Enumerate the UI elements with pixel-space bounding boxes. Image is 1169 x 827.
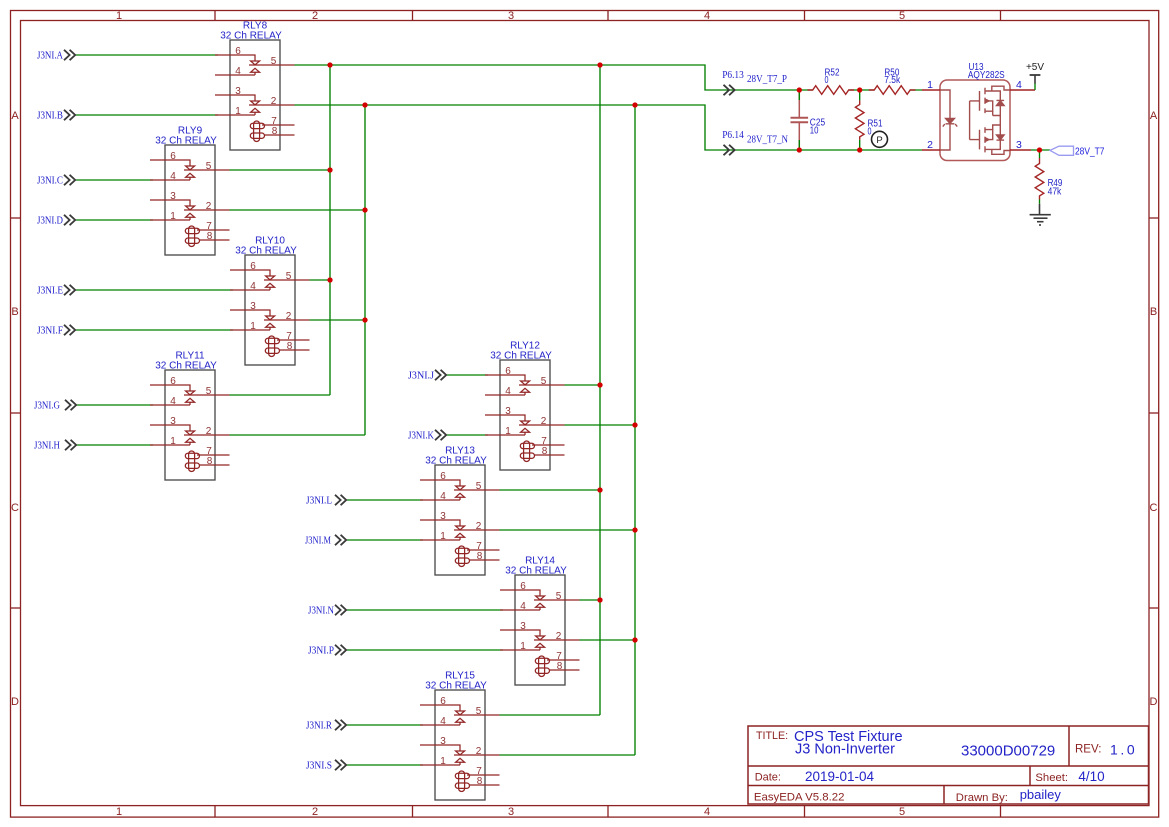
junction C25 bottom bbox=[797, 147, 802, 152]
svg-text:J3NI.K: J3NI.K bbox=[408, 430, 434, 441]
svg-text:J3NI.F: J3NI.F bbox=[37, 325, 63, 336]
svg-text:2: 2 bbox=[312, 10, 318, 22]
junction RLY8.2 bus D bbox=[632, 102, 637, 107]
svg-text:10: 10 bbox=[810, 125, 819, 136]
svg-text:3: 3 bbox=[508, 10, 514, 22]
port J3NI.S bbox=[306, 760, 346, 772]
svg-text:3: 3 bbox=[1016, 139, 1022, 151]
junction RLY10.5 bus A bbox=[327, 277, 332, 282]
svg-text:P: P bbox=[876, 135, 882, 146]
wire J3NI.F to RLY10 pin1 bbox=[76, 329, 233, 331]
svg-text:32 Ch RELAY: 32 Ch RELAY bbox=[220, 31, 282, 42]
svg-text:B: B bbox=[11, 306, 18, 318]
port P6.13 bbox=[722, 70, 744, 95]
title block bbox=[748, 726, 1149, 804]
svg-text:P6.14: P6.14 bbox=[722, 130, 744, 141]
wire RLY14 pin2 to bus bbox=[580, 639, 636, 641]
junction RLY13.2 bus D bbox=[632, 527, 637, 532]
svg-text:J3NI.M: J3NI.M bbox=[305, 535, 332, 546]
svg-text:32 Ch RELAY: 32 Ch RELAY bbox=[425, 681, 487, 692]
wire RLY15 pin5 to bus bbox=[500, 714, 601, 716]
+5V power symbol bbox=[1026, 62, 1044, 90]
svg-text:32 Ch RELAY: 32 Ch RELAY bbox=[235, 246, 297, 257]
U13 pin numbers bbox=[927, 79, 1022, 151]
junction RLY12.2 bus D bbox=[632, 422, 637, 427]
relay RLY10 bbox=[230, 236, 310, 365]
U13 pin 3 stub bbox=[1010, 149, 1031, 151]
svg-text:+5V: +5V bbox=[1026, 62, 1044, 73]
svg-text:32 Ch RELAY: 32 Ch RELAY bbox=[155, 361, 217, 372]
svg-text:J3NI.L: J3NI.L bbox=[306, 495, 332, 506]
wire J3NI.G to RLY11 pin4 bbox=[76, 404, 153, 406]
svg-text:2: 2 bbox=[927, 139, 933, 151]
port J3NI.M bbox=[305, 535, 346, 547]
svg-text:3: 3 bbox=[508, 806, 514, 818]
junction RLY13.5 bus C bbox=[597, 487, 602, 492]
svg-text:J3NI.A: J3NI.A bbox=[37, 50, 63, 61]
port J3NI.D bbox=[37, 215, 75, 227]
svg-text:1.0: 1.0 bbox=[1110, 742, 1137, 758]
svg-text:5: 5 bbox=[899, 806, 905, 818]
svg-text:AQY282S: AQY282S bbox=[968, 70, 1005, 81]
svg-text:J3NI.R: J3NI.R bbox=[306, 720, 332, 731]
junction RLY8.5 bus C bbox=[597, 62, 602, 67]
svg-text:J3NI.J: J3NI.J bbox=[408, 370, 434, 381]
wire U13 pin3 to net flag bbox=[1031, 149, 1050, 151]
svg-text:4: 4 bbox=[704, 806, 710, 818]
svg-text:28V_T7_P: 28V_T7_P bbox=[747, 74, 787, 85]
wire RLY11 pin5 to bus bbox=[230, 394, 331, 396]
port J3NI.R bbox=[306, 720, 346, 732]
wire RLY8 pin2 to port P6.14 rail bbox=[295, 105, 923, 150]
svg-text:J3NI.H: J3NI.H bbox=[34, 440, 60, 451]
svg-text:J3NI.D: J3NI.D bbox=[37, 215, 63, 226]
port J3NI.E bbox=[37, 285, 75, 297]
port J3NI.A bbox=[37, 50, 75, 62]
svg-text:J3NI.G: J3NI.G bbox=[34, 400, 60, 411]
svg-text:C: C bbox=[11, 502, 19, 514]
svg-text:Date:: Date: bbox=[755, 772, 781, 784]
port J3NI.F bbox=[37, 325, 75, 337]
wire J3NI.S to RLY15 pin1 bbox=[347, 764, 423, 766]
svg-text:0: 0 bbox=[868, 126, 872, 137]
svg-text:P6.13: P6.13 bbox=[722, 70, 744, 81]
svg-text:C: C bbox=[1150, 502, 1158, 514]
svg-text:32 Ch RELAY: 32 Ch RELAY bbox=[155, 136, 217, 147]
svg-text:47k: 47k bbox=[1048, 187, 1063, 198]
svg-text:Drawn By:: Drawn By: bbox=[956, 792, 1008, 804]
svg-text:7.5k: 7.5k bbox=[884, 75, 901, 86]
wire RLY9 pin5 to bus bbox=[230, 169, 331, 171]
svg-text:D: D bbox=[11, 696, 19, 708]
svg-text:28V_T7: 28V_T7 bbox=[1075, 146, 1105, 157]
port J3NI.G bbox=[34, 400, 76, 412]
svg-text:J3 Non-Inverter: J3 Non-Inverter bbox=[795, 742, 895, 758]
port J3NI.L bbox=[306, 495, 346, 507]
svg-text:4: 4 bbox=[1016, 79, 1022, 91]
wire J3NI.L to RLY13 pin4 bbox=[347, 499, 423, 501]
svg-text:1: 1 bbox=[116, 10, 122, 22]
svg-text:4: 4 bbox=[704, 10, 710, 22]
svg-text:J3NI.C: J3NI.C bbox=[37, 175, 63, 186]
svg-text:B: B bbox=[1150, 306, 1157, 318]
junction RLY12.5 bus C bbox=[597, 382, 602, 387]
port J3NI.J bbox=[408, 370, 446, 382]
junction RLY9.2 bus B bbox=[362, 207, 367, 212]
svg-text:33000D00729: 33000D00729 bbox=[961, 743, 1055, 760]
svg-text:TITLE:: TITLE: bbox=[756, 730, 788, 742]
svg-text:32 Ch RELAY: 32 Ch RELAY bbox=[505, 566, 567, 577]
port P6.14 bbox=[722, 130, 744, 155]
svg-text:J3NI.E: J3NI.E bbox=[37, 285, 63, 296]
wire RLY10 pin2 to bus bbox=[310, 319, 366, 321]
svg-text:J3NI.P: J3NI.P bbox=[308, 645, 334, 656]
ground symbol bbox=[1030, 204, 1051, 225]
wire RLY13 pin5 to bus bbox=[500, 489, 601, 491]
U13 internal MOSFET pair bbox=[970, 86, 1010, 154]
svg-text:32 Ch RELAY: 32 Ch RELAY bbox=[425, 456, 487, 467]
resistor R50 bbox=[869, 68, 916, 95]
wire J3NI.R to RLY15 pin4 bbox=[347, 724, 423, 726]
resistor R51 bbox=[855, 90, 882, 150]
svg-text:pbailey: pbailey bbox=[1020, 787, 1062, 802]
vertical bus x365 bbox=[364, 105, 366, 435]
svg-text:4/10: 4/10 bbox=[1078, 769, 1104, 784]
wire RLY9 pin2 to bus bbox=[230, 209, 366, 211]
wire RLY10 pin5 to bus bbox=[310, 279, 331, 281]
svg-text:D: D bbox=[1150, 696, 1158, 708]
relay RLY15 bbox=[420, 671, 500, 800]
svg-text:1: 1 bbox=[116, 806, 122, 818]
relay RLY9 bbox=[150, 126, 230, 255]
wire J3NI.B to RLY8 pin1 bbox=[76, 114, 218, 116]
wire J3NI.J to RLY12 pin6 bbox=[447, 374, 488, 376]
wire RLY15 pin2 to bus bbox=[500, 754, 636, 756]
wire J3NI.K to RLY12 pin1 bbox=[447, 434, 488, 436]
U13 pin 4 stub bbox=[1010, 89, 1035, 91]
wire RLY12 pin2 to bus bbox=[565, 424, 636, 426]
probe P bbox=[872, 131, 888, 147]
wire RLY14 pin5 to bus bbox=[580, 599, 601, 601]
wire J3NI.P to RLY14 pin1 bbox=[347, 649, 503, 651]
wire J3NI.C to RLY9 pin4 bbox=[76, 179, 153, 181]
junction R51 bottom bbox=[857, 147, 862, 152]
junction R49 / 28V_T7 bbox=[1037, 147, 1042, 152]
junction RLY10.2 bus B bbox=[362, 317, 367, 322]
junction RLY14.2 bus D bbox=[632, 637, 637, 642]
port J3NI.C bbox=[37, 175, 75, 187]
port J3NI.B bbox=[37, 110, 75, 122]
wire J3NI.D to RLY9 pin1 bbox=[76, 219, 153, 221]
svg-text:Sheet:: Sheet: bbox=[1035, 772, 1068, 784]
svg-text:2: 2 bbox=[312, 806, 318, 818]
capacitor C25 bbox=[791, 90, 826, 150]
svg-text:J3NI.B: J3NI.B bbox=[37, 110, 63, 121]
U13 pin 2 stub bbox=[922, 149, 940, 151]
opto relay U13 AQY282S bbox=[922, 62, 1035, 161]
relay RLY11 bbox=[150, 351, 230, 480]
wire J3NI.N to RLY14 pin4 bbox=[347, 609, 503, 611]
svg-text:28V_T7_N: 28V_T7_N bbox=[747, 135, 788, 146]
wire RLY11 pin2 to bus bbox=[230, 434, 366, 436]
wire RLY12 pin5 to bus bbox=[565, 384, 601, 386]
svg-text:J3NI.S: J3NI.S bbox=[306, 760, 332, 771]
junction RLY9.5 bus A bbox=[327, 167, 332, 172]
svg-text:A: A bbox=[11, 110, 19, 122]
port J3NI.N bbox=[308, 605, 346, 617]
port J3NI.P bbox=[308, 645, 346, 657]
wire J3NI.M to RLY13 pin1 bbox=[347, 539, 423, 541]
svg-text:0: 0 bbox=[825, 75, 829, 86]
relay RLY14 bbox=[500, 556, 580, 685]
port J3NI.H bbox=[34, 440, 76, 452]
net flag 28V_T7 bbox=[1050, 146, 1105, 157]
resistor R52 bbox=[808, 68, 855, 95]
svg-text:REV:: REV: bbox=[1075, 744, 1101, 756]
svg-text:J3NI.N: J3NI.N bbox=[308, 605, 334, 616]
port J3NI.K bbox=[408, 430, 446, 442]
junction R51 top bbox=[857, 87, 862, 92]
wire J3NI.A to RLY8 pin6 bbox=[76, 54, 218, 56]
wire J3NI.E to RLY10 pin4 bbox=[76, 289, 233, 291]
relay RLY13 bbox=[420, 446, 500, 575]
svg-text:2019-01-04: 2019-01-04 bbox=[805, 769, 875, 784]
wire J3NI.H to RLY11 pin1 bbox=[76, 444, 153, 446]
wire RLY8 pin5 to port P6.13 rail bbox=[295, 65, 923, 90]
svg-text:A: A bbox=[1150, 110, 1158, 122]
vertical bus x330 bbox=[329, 65, 331, 395]
svg-text:EasyEDA V5.8.22: EasyEDA V5.8.22 bbox=[754, 792, 845, 804]
U13 internal LED bbox=[940, 90, 957, 150]
junction RLY8.2 bus B bbox=[362, 102, 367, 107]
resistor R49 bbox=[1035, 150, 1063, 204]
svg-text:5: 5 bbox=[899, 10, 905, 22]
vertical bus x635 bbox=[634, 105, 636, 755]
wire RLY13 pin2 to bus bbox=[500, 529, 636, 531]
svg-text:32 Ch RELAY: 32 Ch RELAY bbox=[490, 351, 552, 362]
junction C25 top bbox=[797, 87, 802, 92]
U13 pin 1 stub bbox=[922, 89, 940, 91]
relay RLY12 bbox=[485, 341, 565, 470]
vertical bus x600 bbox=[599, 65, 601, 715]
junction RLY8.5 bus A bbox=[327, 62, 332, 67]
junction RLY14.5 bus C bbox=[597, 597, 602, 602]
svg-text:1: 1 bbox=[927, 79, 933, 91]
relay RLY8 bbox=[215, 21, 295, 150]
